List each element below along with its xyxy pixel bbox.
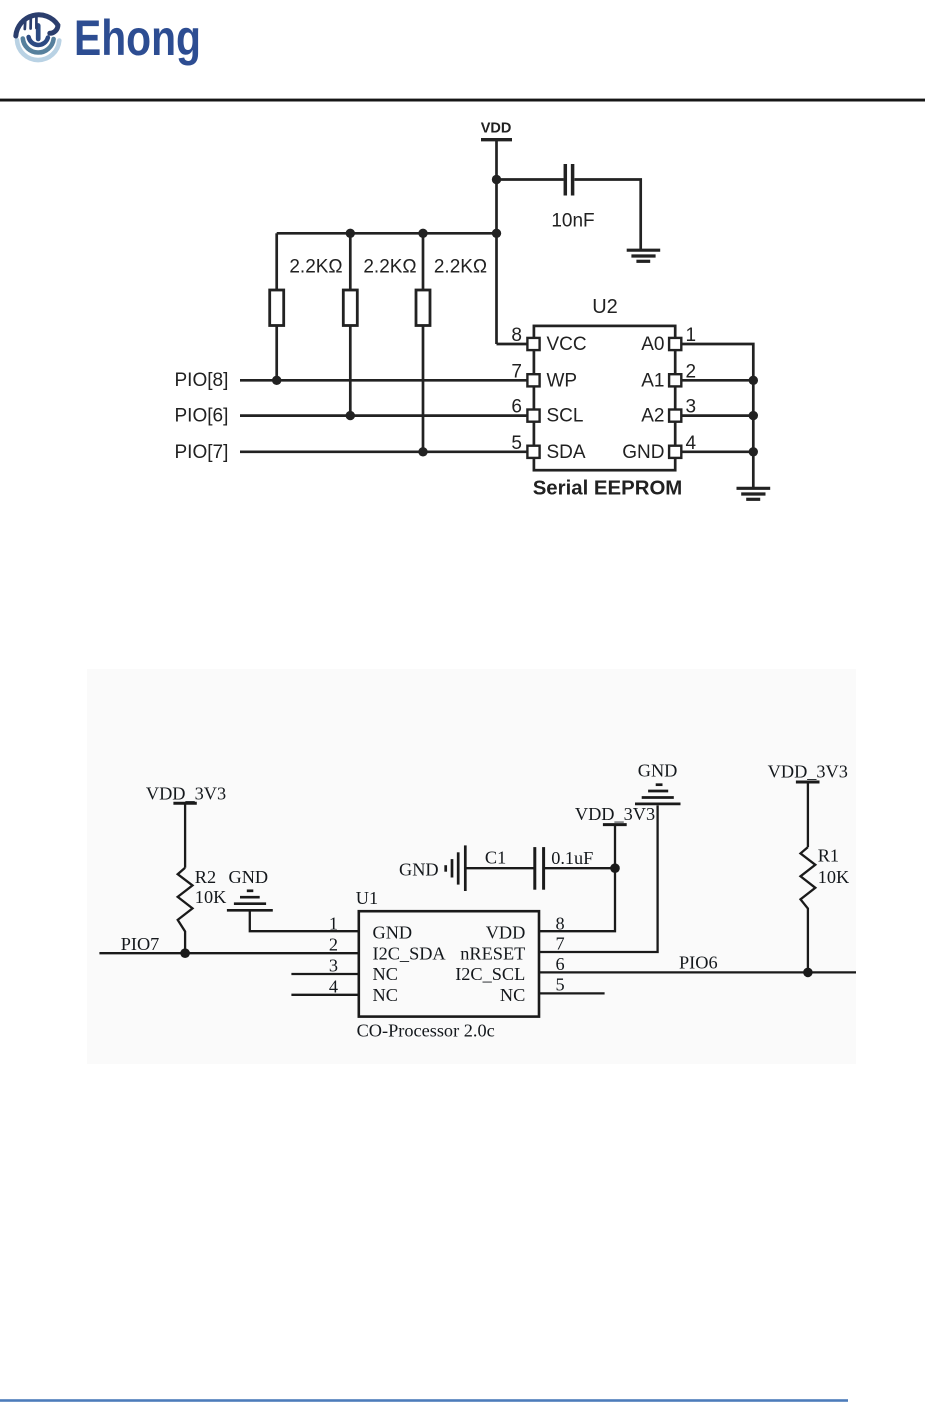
svg-text:VDD_3V3: VDD_3V3 (146, 784, 226, 804)
svg-text:NC: NC (373, 985, 398, 1005)
svg-text:PIO7: PIO7 (121, 934, 160, 954)
svg-text:VDD_3V3: VDD_3V3 (768, 762, 848, 782)
svg-text:R1: R1 (818, 846, 839, 866)
svg-text:NC: NC (500, 985, 525, 1005)
power stem (36, 26, 41, 40)
svg-text:4: 4 (686, 433, 697, 454)
ground symbol (top middle GND) (656, 783, 663, 786)
svg-text:VDD: VDD (481, 121, 512, 137)
node junction bus-R2 (346, 229, 355, 238)
power symbol VDD_3V3 (middle) (603, 823, 627, 826)
svg-text:7: 7 (556, 933, 565, 953)
pin 6 square (527, 410, 539, 422)
node junction R2-PIO7 (180, 948, 190, 958)
wire resistor drops to bus (275, 233, 278, 290)
svg-text:U1: U1 (356, 888, 378, 908)
svg-text:GND: GND (229, 867, 269, 887)
pin 2 square (669, 374, 681, 386)
svg-text:10K: 10K (195, 887, 227, 907)
node junction R1-PIO6 (803, 968, 813, 978)
svg-text:6: 6 (556, 954, 565, 974)
node junction GND-gnd net (749, 447, 758, 456)
top navy hand arc (16, 15, 58, 36)
wire VDD vertical (495, 140, 498, 344)
resistor 2.2K (2) body (343, 290, 357, 326)
ground symbol (rotated, at C1) (444, 865, 447, 872)
wire GND pin (681, 450, 753, 453)
capacitor 10nF plates (564, 164, 568, 196)
svg-text:Ehong: Ehong (74, 10, 201, 66)
svg-text:C1: C1 (485, 848, 506, 868)
svg-text:SCL: SCL (547, 406, 584, 427)
svg-text:5: 5 (556, 975, 565, 995)
svg-text:U2: U2 (592, 296, 618, 318)
svg-text:5: 5 (511, 433, 522, 454)
capacitor C1 plates (533, 847, 536, 890)
svg-text:2: 2 (686, 361, 697, 382)
node junction C1-VDD net (610, 863, 620, 873)
wire pin3 stub (291, 973, 360, 975)
resistor R1 zigzag (801, 847, 816, 972)
wire resistor bus (277, 232, 497, 235)
svg-text:3: 3 (686, 397, 697, 418)
svg-text:A1: A1 (641, 370, 664, 391)
svg-text:A2: A2 (641, 406, 664, 427)
wire pin5 stub (538, 992, 605, 994)
outer light-blue arc (17, 40, 59, 60)
svg-text:2.2KΩ: 2.2KΩ (363, 257, 416, 278)
resistor 2.2K (1) body (270, 290, 284, 326)
svg-text:6: 6 (511, 397, 522, 418)
wire VDD to VCC pin (497, 343, 528, 346)
wire pin6 I2C_SCL / PIO6 (538, 971, 856, 973)
svg-text:3: 3 (329, 956, 338, 976)
svg-text:PIO[6]: PIO[6] (175, 406, 229, 427)
svg-text:GND: GND (638, 761, 678, 781)
finger strokes (23, 20, 26, 29)
middle teal arc (23, 39, 54, 53)
wire pin8 VDD up to VDD_3V3 (538, 825, 615, 931)
svg-text:2.2KΩ: 2.2KΩ (289, 257, 342, 278)
wire A1 (681, 379, 753, 382)
pin 7 square (527, 374, 539, 386)
svg-text:GND: GND (373, 923, 413, 943)
svg-text:CO-Processor 2.0c: CO-Processor 2.0c (357, 1021, 495, 1041)
svg-text:2: 2 (329, 935, 338, 955)
schematic 2 background panel (87, 669, 856, 1064)
node junction VDD-bus (492, 229, 501, 238)
svg-text:2.2KΩ: 2.2KΩ (434, 257, 487, 278)
wire PIO7 to pin2 (99, 952, 360, 954)
svg-text:VDD_3V3: VDD_3V3 (575, 804, 655, 824)
IC U1 body (359, 911, 539, 1016)
wire GND to pin1 (250, 910, 360, 931)
svg-text:R2: R2 (195, 867, 216, 887)
node junction A2-gnd net (749, 411, 758, 420)
svg-text:8: 8 (556, 914, 565, 934)
wire A0 to ground net (681, 344, 753, 487)
resistor R2 zigzag (178, 868, 193, 953)
wire VDD_3V3 to R2 (184, 803, 186, 868)
wire resistor2 bottom (349, 326, 352, 416)
node junction VDD-cap (492, 175, 501, 184)
power symbol VDD (481, 138, 512, 141)
wire cap branch horizontal (497, 178, 564, 181)
IC U2 body (534, 326, 675, 470)
wire PIO[8] to WP (240, 379, 527, 382)
wire cap to ground (575, 180, 641, 250)
wire resistor1 bottom (275, 326, 278, 381)
svg-text:VCC: VCC (547, 334, 587, 355)
svg-text:nRESET: nRESET (460, 943, 525, 963)
svg-text:I2C_SCL: I2C_SCL (455, 964, 525, 984)
node junction bus-R3 (418, 229, 427, 238)
svg-text:PIO6: PIO6 (679, 953, 718, 973)
svg-text:8: 8 (511, 325, 522, 346)
power symbol VDD_3V3 (left) (173, 802, 196, 805)
power symbol VDD_3V3 (right) (796, 781, 820, 784)
svg-text:Serial EEPROM: Serial EEPROM (533, 478, 683, 500)
node junction R2-PIO6 (346, 411, 355, 420)
svg-text:SDA: SDA (547, 442, 586, 463)
pin 4 square (669, 446, 681, 458)
footer rule (0, 1399, 848, 1402)
ground symbol (near R2) (247, 889, 254, 892)
svg-text:NC: NC (373, 964, 398, 984)
svg-text:PIO[7]: PIO[7] (175, 442, 229, 463)
wire pin4 stub (291, 994, 360, 996)
svg-text:A0: A0 (641, 334, 664, 355)
node junction A1-gnd net (749, 376, 758, 385)
svg-text:1: 1 (686, 325, 697, 346)
svg-text:10nF: 10nF (551, 211, 594, 232)
wire resistor3 bottom (422, 326, 425, 452)
node junction R1-PIO8 (272, 376, 281, 385)
svg-text:GND: GND (399, 860, 439, 880)
svg-text:PIO[8]: PIO[8] (175, 370, 229, 391)
wire C1 to VDD net (544, 867, 615, 869)
svg-text:10K: 10K (818, 867, 850, 887)
resistor 2.2K (3) body (416, 290, 430, 326)
inner navy U arc (29, 37, 48, 45)
svg-text:I2C_SDA: I2C_SDA (373, 943, 447, 963)
svg-text:1: 1 (329, 914, 338, 934)
svg-text:WP: WP (547, 370, 578, 391)
pin 3 square (669, 410, 681, 422)
svg-text:GND: GND (622, 442, 664, 463)
ground (U2) (737, 487, 771, 490)
ground (cap) (627, 249, 661, 252)
svg-text:VDD: VDD (486, 923, 526, 943)
wire VDD_3V3 to R1 (807, 782, 809, 847)
node junction R3-PIO7 (418, 447, 427, 456)
header rule (0, 99, 925, 102)
wire gnd to C1 (465, 867, 533, 869)
company logo icon (16, 15, 60, 60)
svg-text:7: 7 (511, 361, 522, 382)
wire A2 (681, 414, 753, 417)
wire pin7 nRESET to GND (538, 805, 658, 952)
pin 5 square (527, 446, 539, 458)
pin 8 square (527, 338, 539, 350)
svg-text:4: 4 (329, 976, 338, 996)
pin 1 square (669, 338, 681, 350)
wire PIO[6] to SCL (240, 414, 527, 417)
wire PIO[7] to SDA (240, 450, 527, 453)
svg-text:0.1uF: 0.1uF (551, 848, 593, 868)
